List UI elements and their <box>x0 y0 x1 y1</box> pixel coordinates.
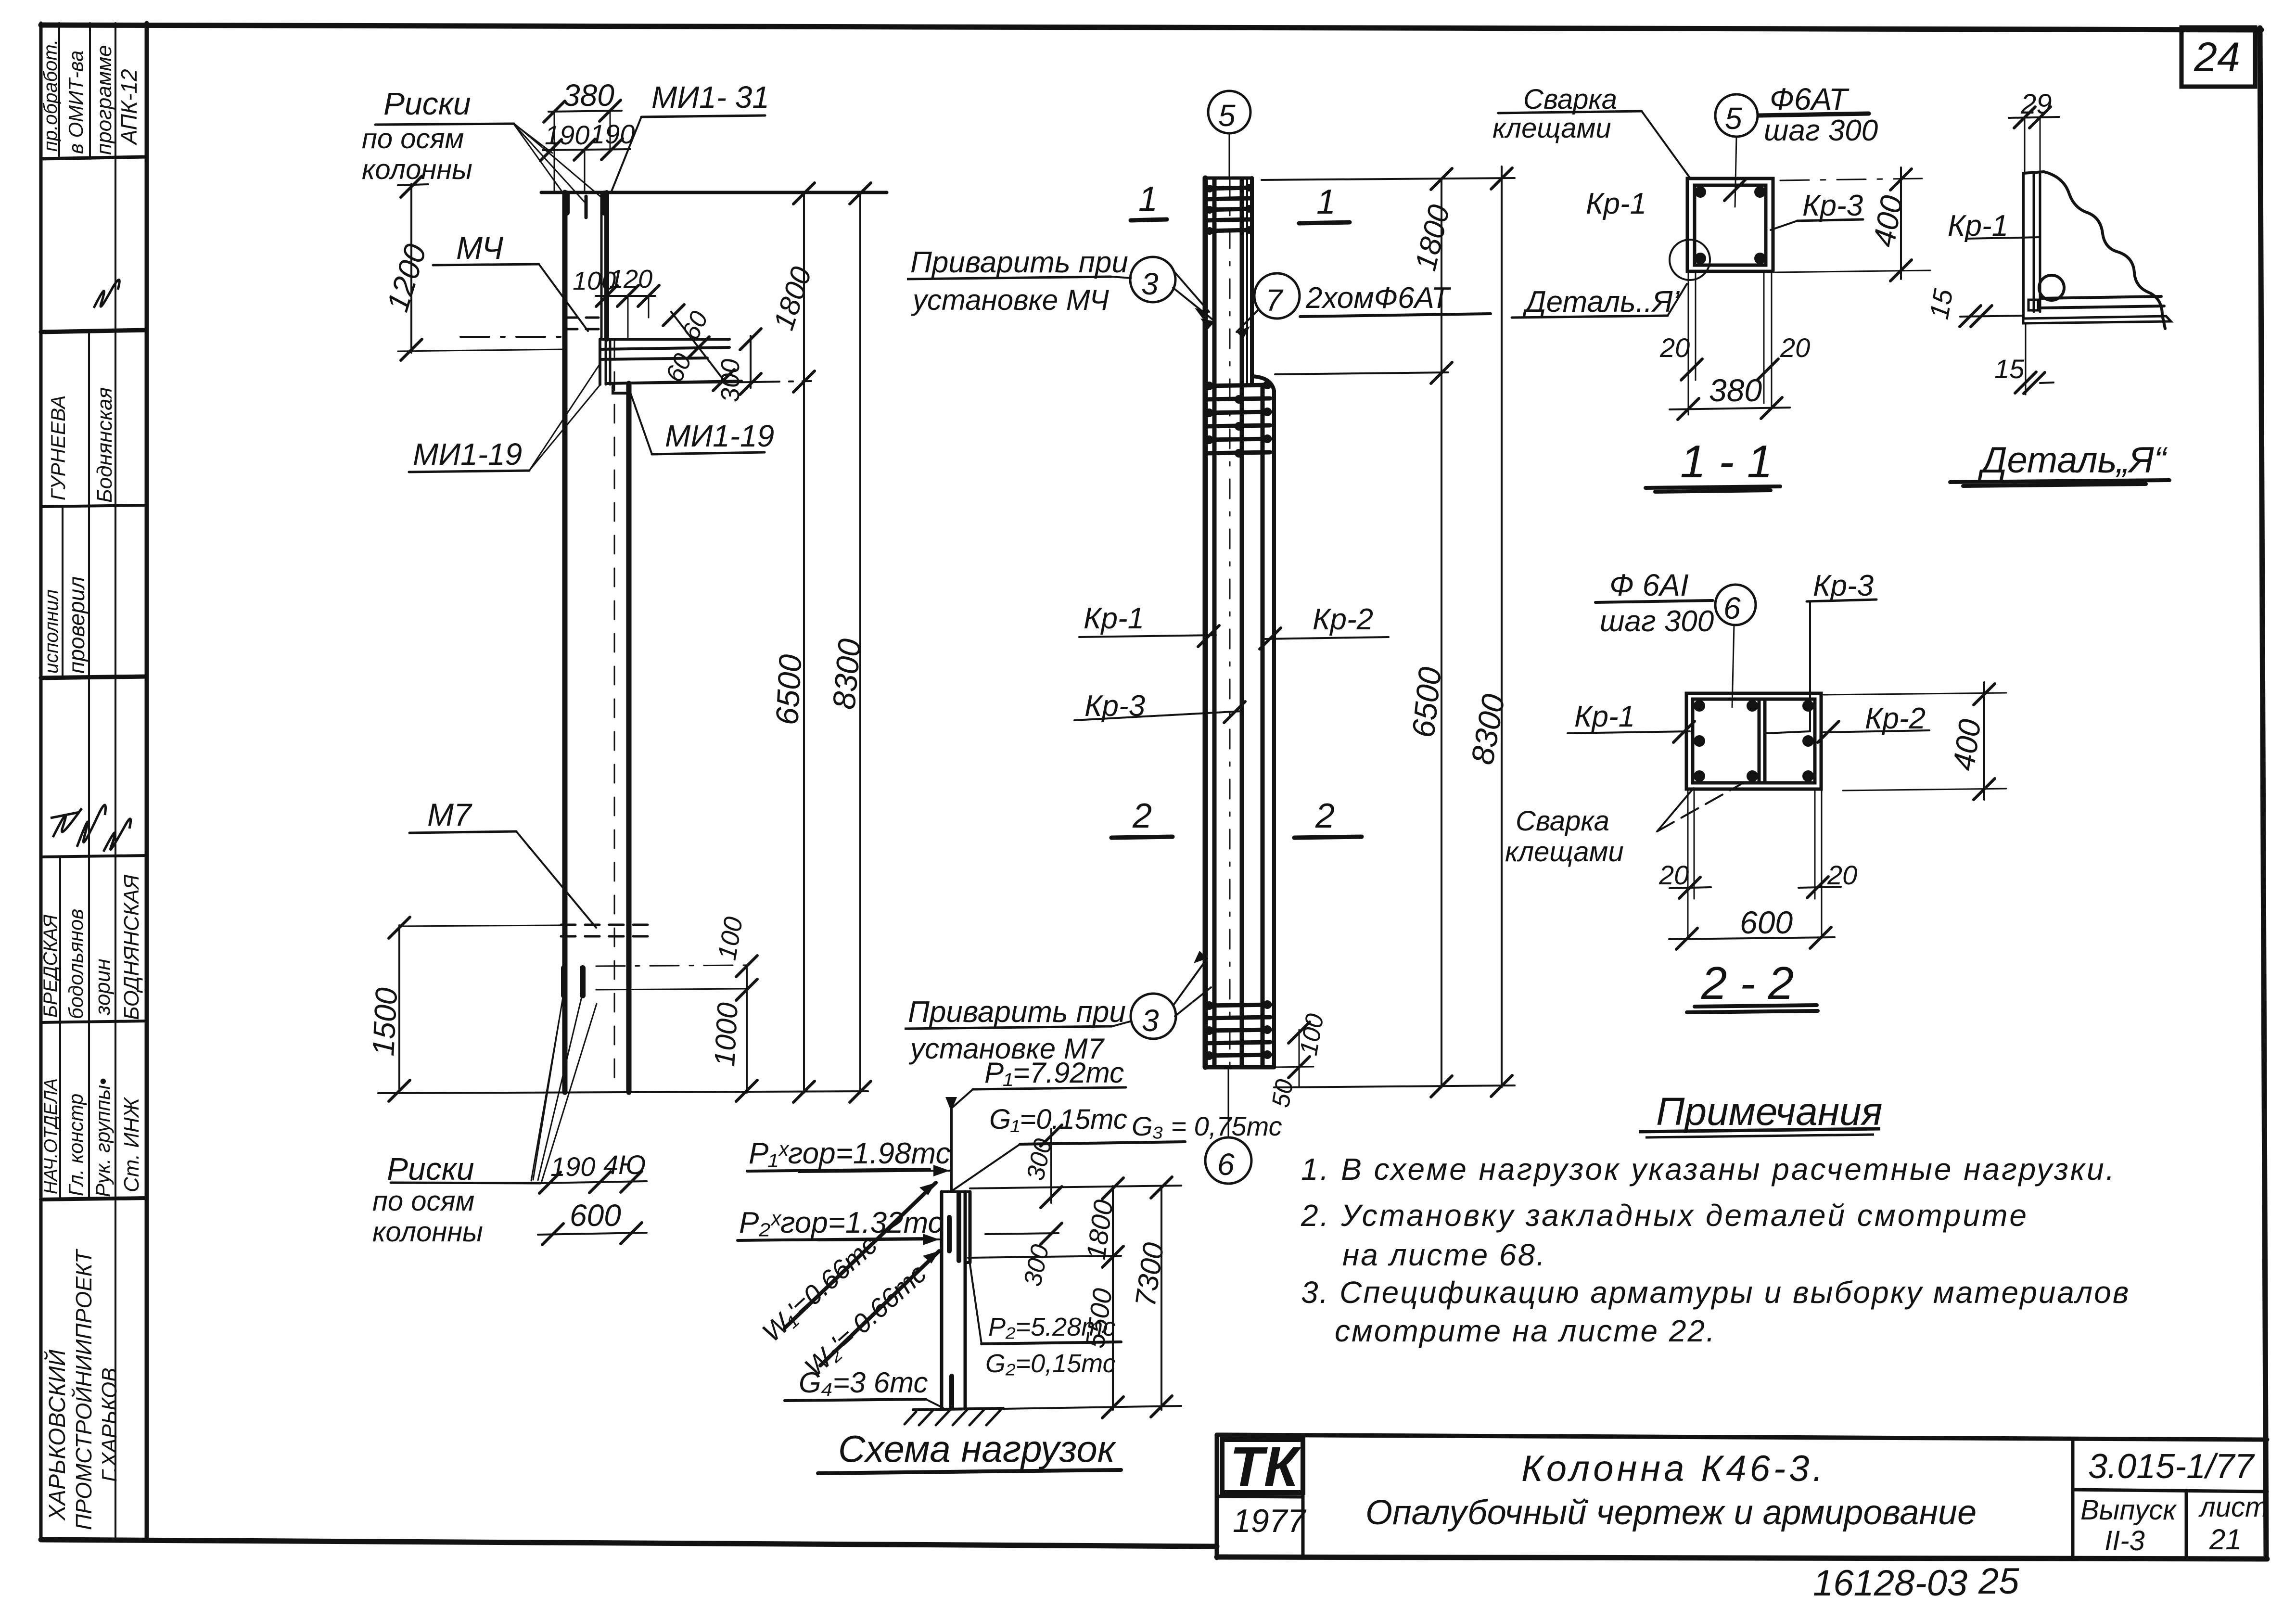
column outline armature view <box>1203 178 1208 1067</box>
G3 underline and leader <box>1020 1142 1185 1144</box>
rebar dots 2-2 <box>1694 700 1814 782</box>
top 380 dim <box>548 111 622 112</box>
svg-text:20: 20 <box>1780 332 1810 363</box>
column top line <box>541 191 887 194</box>
Деталь А leader <box>1512 316 1668 318</box>
svg-text:6500: 6500 <box>1405 665 1448 739</box>
detail A circle on 1-1 <box>1670 240 1710 280</box>
svg-text:МИ1- 31: МИ1- 31 <box>651 80 769 115</box>
risk marks lower column <box>561 968 567 995</box>
axis dashed line lower column <box>614 339 615 1090</box>
section 2-2 inner partition Кр-3 <box>1758 699 1761 783</box>
2-2 title underline <box>1687 1005 1818 1012</box>
detail A bottom plate <box>2041 296 2161 298</box>
svg-text:колонны: колонны <box>362 154 472 185</box>
W1 wind arrow diagonal <box>785 1183 936 1328</box>
МЧ embedded plate dashed <box>565 317 607 319</box>
svg-text:24: 24 <box>2194 34 2240 80</box>
svg-text:по осям: по осям <box>362 123 464 154</box>
svg-text:29: 29 <box>2020 89 2052 120</box>
Сварка клещами leader <box>1498 111 1642 113</box>
svg-text:120: 120 <box>609 265 652 294</box>
svg-text:6: 6 <box>1217 1147 1235 1182</box>
section mark 1 right <box>1299 222 1350 223</box>
stamp strip horizontal dividers <box>41 157 147 159</box>
circle 5 of section 1-1 <box>1715 94 1758 137</box>
svg-text:2: 2 <box>1315 797 1335 835</box>
connector lines load scheme <box>970 1186 1181 1188</box>
svg-text:7: 7 <box>1265 283 1284 318</box>
svg-text:1: 1 <box>1138 180 1158 218</box>
svg-text:G₃ = 0,75тс: G₃ = 0,75тс <box>1132 1111 1282 1141</box>
svg-text:50: 50 <box>1267 1077 1299 1110</box>
300 dim right of plate <box>750 336 752 388</box>
svg-text:Колонна К46-3.: Колонна К46-3. <box>1521 1448 1826 1489</box>
risk tick marks at column top <box>564 193 570 213</box>
mast of load scheme <box>940 1192 944 1409</box>
svg-text:1 - 1: 1 - 1 <box>1680 436 1773 487</box>
50/100 small dims <box>1274 1067 1314 1067</box>
svg-text:3: 3 <box>1142 1003 1159 1038</box>
svg-text:Ф 6АІ: Ф 6АІ <box>1609 568 1689 602</box>
dim line 1200 <box>410 184 412 353</box>
svg-text:МИ1-19: МИ1-19 <box>665 419 774 453</box>
svg-text:ТК: ТК <box>1230 1435 1301 1498</box>
texts of formwork view <box>362 78 867 1248</box>
Кр-1 leader 2-2 <box>1568 731 1690 733</box>
Кр-3 leader <box>1074 711 1242 720</box>
svg-text:БОДНЯНСКАЯ: БОДНЯНСКАЯ <box>120 874 143 1020</box>
svg-text:1: 1 <box>1316 183 1336 221</box>
section mark 2 right <box>1294 837 1362 838</box>
svg-text:на листе 68.: на листе 68. <box>1342 1238 1546 1272</box>
P1 arrow down <box>945 1097 957 1111</box>
G4 underline leader <box>785 1399 926 1401</box>
svg-text:Г.ХАРЬКОВ: Г.ХАРЬКОВ <box>98 1368 121 1482</box>
svg-text:Кр-3: Кр-3 <box>1813 569 1874 602</box>
svg-text:ПРОМСТРОЙНИИПРОЕКТ: ПРОМСТРОЙНИИПРОЕКТ <box>71 1249 96 1530</box>
Приварить underline bottom <box>905 1026 1112 1029</box>
svg-text:Кр-3: Кр-3 <box>1084 689 1145 723</box>
svg-text:400: 400 <box>1946 717 1988 773</box>
svg-text:Выпуск: Выпуск <box>2080 1494 2177 1526</box>
20/20 ext lines 2-2 <box>1687 789 1689 938</box>
svg-text:G₂=0,15тс: G₂=0,15тс <box>985 1349 1116 1378</box>
dim line 1500 <box>398 925 400 1093</box>
svg-text:Кр-1: Кр-1 <box>1084 602 1144 635</box>
svg-text:по осям: по осям <box>372 1186 474 1217</box>
page bottom border <box>41 1540 1217 1546</box>
rebar dots 1-1 <box>1695 186 1766 264</box>
svg-text:2 - 2: 2 - 2 <box>1701 957 1794 1009</box>
section 2-2 outer rect <box>1686 693 1821 789</box>
P1гор underline arrow <box>747 1169 930 1171</box>
svg-text:15: 15 <box>1924 286 1959 321</box>
svg-text:установке МЧ: установке МЧ <box>911 284 1109 316</box>
svg-text:16128-03: 16128-03 <box>1813 1563 1967 1604</box>
stamp strip signature squiggle row2 <box>94 280 119 308</box>
dim line 100/1000 right of risks <box>746 965 748 1093</box>
svg-text:2хомФ6АТ: 2хомФ6АТ <box>1305 281 1452 315</box>
console top extension <box>1275 372 1448 374</box>
svg-text:МЧ: МЧ <box>456 230 504 266</box>
svg-text:бодольянов: бодольянов <box>64 909 87 1019</box>
svg-text:НАЧ.ОТДЕЛА: НАЧ.ОТДЕЛА <box>41 1078 61 1194</box>
svg-text:6: 6 <box>1723 591 1741 625</box>
column right face upper (380 part) <box>600 192 603 339</box>
stamp strip rotated texts row1 <box>40 39 141 155</box>
МИ1-19 console plate <box>600 338 729 341</box>
svg-text:8300: 8300 <box>826 637 867 711</box>
380 dim of 1-1 <box>1670 408 1790 409</box>
dim verticals 1800-6500 / 8300 <box>1441 179 1442 1087</box>
position circle 5 top <box>1208 91 1250 133</box>
console bottom level line to dim <box>630 382 755 383</box>
Риски bottom leader underline <box>391 1183 541 1183</box>
МИ1-19 right leader <box>652 452 765 454</box>
svg-text:190: 190 <box>550 1151 595 1182</box>
Деталь А title underline <box>1950 480 2169 486</box>
top 190/190 dim <box>543 149 630 150</box>
svg-text:Р₁=7.92тс: Р₁=7.92тс <box>984 1057 1124 1089</box>
svg-text:Гл. констр: Гл. констр <box>64 1094 87 1196</box>
svg-text:Кр-2: Кр-2 <box>1313 603 1373 636</box>
riski fan top <box>514 124 567 198</box>
svg-text:шаг 300: шаг 300 <box>1764 114 1878 147</box>
texts section 1-1 <box>1492 82 1909 487</box>
Кр-3 leader 1-1 <box>1771 221 1797 230</box>
svg-text:проверил: проверил <box>64 576 89 674</box>
svg-text:5: 5 <box>1725 101 1742 136</box>
console notch <box>613 383 630 393</box>
svg-text:20: 20 <box>1659 332 1690 363</box>
W2 wind arrow diagonal <box>820 1251 939 1366</box>
svg-text:программе: программе <box>92 45 116 155</box>
svg-text:колонны: колонны <box>372 1216 483 1248</box>
section 1-1 outer rect <box>1687 179 1773 271</box>
console outer edge and lower right face <box>1252 376 1274 1067</box>
top stirrup zone <box>1207 188 1251 231</box>
svg-text:АПК-12: АПК-12 <box>116 69 141 146</box>
svg-text:Сварка: Сварка <box>1523 84 1617 115</box>
svg-text:1977: 1977 <box>1233 1503 1306 1539</box>
svg-text:клещами: клещами <box>1492 113 1611 144</box>
svg-text:в ОМИТ-ва: в ОМИТ-ва <box>64 51 87 154</box>
svg-text:Ст. ИНЖ: Ст. ИНЖ <box>120 1097 143 1192</box>
600 dim 2-2 <box>1669 937 1835 939</box>
Ф6АТ шаг300 label underline <box>1759 114 1869 115</box>
callout circle 3 top with leaders <box>1130 257 1175 302</box>
svg-text:клещами: клещами <box>1505 836 1624 868</box>
page top border <box>41 25 2261 30</box>
bottom 600 dim line <box>538 1233 647 1235</box>
mast axis upper <box>950 1107 953 1192</box>
stamp strip vertical dividers <box>58 23 60 159</box>
bottom extension <box>1274 1085 1515 1087</box>
svg-text:пр.обработ.: пр.обработ. <box>40 39 61 152</box>
Кр-2 leader 2-2 <box>1824 730 1929 732</box>
svg-text:21: 21 <box>2209 1523 2242 1556</box>
svg-text:Деталь„Я“: Деталь„Я“ <box>1977 440 2168 481</box>
mast corbel <box>969 1192 972 1263</box>
Схема нагрузок underline <box>818 1470 1121 1473</box>
svg-text:1500: 1500 <box>366 986 404 1057</box>
slanted 60/60 dim chain <box>671 312 726 383</box>
svg-text:Примечания: Примечания <box>1656 1090 1882 1134</box>
svg-text:МИ1-19: МИ1-19 <box>413 437 522 472</box>
svg-text:Опалубочный̇ чертеж и армиров: Опалубочный̇ чертеж и армирование <box>1365 1493 1977 1532</box>
svg-text:ГУРНЕЕВА: ГУРНЕЕВА <box>47 395 69 500</box>
svg-text:Схема нагрузок: Схема нагрузок <box>838 1428 1117 1470</box>
callout circle 3 bottom with leaders <box>1131 994 1176 1039</box>
svg-text:2: 2 <box>1132 797 1152 835</box>
svg-text:зорин: зорин <box>91 958 115 1016</box>
Кр-1 leader <box>1079 635 1216 637</box>
svg-text:Рук. группы•: Рук. группы• <box>91 1078 114 1197</box>
svg-text:ІІ-3: ІІ-3 <box>2105 1525 2145 1557</box>
svg-text:1000: 1000 <box>708 1002 744 1068</box>
svg-text:Риски: Риски <box>383 86 471 121</box>
column right face lower (600 part) <box>626 383 632 1092</box>
stamp strip row5 signatures <box>51 808 82 837</box>
callout circle 7 with leader <box>1254 273 1300 319</box>
МИ1-19 left leader <box>409 471 529 472</box>
svg-text:3. Спецификацию арматуры и в: 3. Спецификацию арматуры и выборку матер… <box>1301 1275 2130 1310</box>
20/20 ext lines of 1-1 <box>1688 271 1689 415</box>
svg-text:300: 300 <box>716 359 745 402</box>
svg-text:Ф6АТ: Ф6АТ <box>1770 82 1850 116</box>
1-1 title underline <box>1645 486 1780 492</box>
svg-text:шаг 300: шаг 300 <box>1600 605 1714 638</box>
small anchor square <box>2028 300 2038 310</box>
detail A plate verticals <box>2022 173 2025 318</box>
column left face <box>562 192 568 1092</box>
15 upper dim detail A <box>1960 316 2023 317</box>
МЧ leader <box>433 264 539 265</box>
svg-text:190: 190 <box>590 119 635 149</box>
risk fan lines bottom <box>533 997 563 1180</box>
svg-text:Кр-1: Кр-1 <box>1948 209 2008 242</box>
sheet number box 24 <box>2181 27 2255 87</box>
svg-text:600: 600 <box>1740 905 1793 940</box>
section 2-2 stirrup rect <box>1693 699 1815 783</box>
2хомФ6АТ underline <box>1300 314 1491 317</box>
svg-text:ХАРЬКОВСКИЙ: ХАРЬКОВСКИЙ <box>44 1349 70 1521</box>
svg-text:Боднянская: Боднянская <box>93 387 116 503</box>
title block outer <box>1217 1435 2267 1440</box>
svg-text:1. В схеме нагрузок указаны р: 1. В схеме нагрузок указаны расчетные на… <box>1301 1152 2116 1187</box>
top extension line <box>1262 178 1515 180</box>
svg-text:15: 15 <box>1994 354 2025 384</box>
svg-text:Кр-2: Кр-2 <box>1865 702 1926 735</box>
ТК logo box <box>1222 1440 1303 1493</box>
P1 label leader <box>973 1087 1126 1089</box>
Примечания underline <box>1639 1129 1880 1132</box>
section mark 1 left <box>1131 219 1167 220</box>
svg-text:20: 20 <box>1827 860 1857 890</box>
Приварить underline top <box>907 277 1111 279</box>
weld circle detail A <box>2039 275 2064 300</box>
section 1-1 stirrup inner rect <box>1695 185 1766 265</box>
axis dashed <box>1229 179 1231 1066</box>
section mark 2 left <box>1111 837 1173 838</box>
svg-text:смотрите на листе 22.: смотрите на листе 22. <box>1335 1314 1716 1348</box>
svg-text:Приварить при: Приварить при <box>908 995 1126 1029</box>
М7 leader <box>409 831 516 833</box>
15 lower dim detail A <box>2025 323 2027 395</box>
circle 6 of section 2-2 <box>1715 585 1756 625</box>
svg-text:25: 25 <box>1978 1561 2019 1602</box>
bottom stirrup zone <box>1206 1005 1270 1056</box>
svg-text:исполнил: исполнил <box>41 589 62 674</box>
400 dim of 1-1 <box>1900 167 1902 279</box>
svg-text:5: 5 <box>1218 98 1236 133</box>
svg-text:лист: лист <box>2198 1492 2268 1523</box>
Риски top leader underline <box>375 124 514 125</box>
svg-text:Деталь..Я’: Деталь..Я’ <box>1522 285 1680 319</box>
svg-text:Сварка: Сварка <box>1516 805 1609 837</box>
bottom dimension line <box>378 1091 868 1093</box>
svg-text:Кр-1: Кр-1 <box>1574 700 1635 733</box>
svg-text:Приварить при: Приварить при <box>910 246 1128 279</box>
svg-text:Р₂ˣгор=1.32тс: Р₂ˣгор=1.32тс <box>739 1206 943 1239</box>
position circle 6 bottom <box>1205 1137 1251 1184</box>
title block right part dividers <box>2071 1439 2075 1559</box>
svg-text:4Ю: 4Ю <box>603 1149 646 1180</box>
svg-text:3.015-1/77: 3.015-1/77 <box>2088 1447 2255 1486</box>
Сварка клещами leaders 2-2 <box>1657 788 1694 831</box>
svg-text:600: 600 <box>570 1198 621 1233</box>
Кр-1 leader detail A <box>1966 237 2040 239</box>
concrete break line detail A <box>2044 172 2165 329</box>
ground line and hatch <box>913 1408 1003 1410</box>
svg-text:380: 380 <box>563 78 614 113</box>
Ф6АІ шаг300 underline 2-2 <box>1595 600 1713 602</box>
svg-text:БРЕДСКАЯ: БРЕДСКАЯ <box>40 914 61 1018</box>
svg-text:Кр-3: Кр-3 <box>1802 189 1863 222</box>
svg-text:М7: М7 <box>427 797 472 832</box>
400 dim 2-2 <box>1983 682 1985 800</box>
svg-text:G₄=3 6тс: G₄=3 6тс <box>799 1366 928 1399</box>
longitudinal bars <box>1212 179 1217 1066</box>
svg-text:20: 20 <box>1658 860 1689 890</box>
Кр-3 leader 2-2 <box>1807 600 1876 601</box>
texts reinforcement view <box>908 98 1511 1182</box>
svg-text:3: 3 <box>1141 267 1159 301</box>
console stirrup zone <box>1206 385 1270 453</box>
svg-text:380: 380 <box>1709 372 1762 408</box>
P2гор underline arrow <box>738 1238 930 1240</box>
29 dim detail A <box>2009 117 2059 118</box>
100/120 dim at plate top <box>596 295 655 297</box>
МИ1-31 leader <box>611 117 641 192</box>
left stamp strip outer <box>39 23 43 1537</box>
svg-text:2. Установку закладных детал: 2. Установку закладных деталей смотрите <box>1301 1198 2028 1233</box>
P2/G2 underline leader <box>982 1342 1121 1344</box>
bottom cap <box>1205 1065 1274 1070</box>
М7 plate dashed lines <box>561 924 652 926</box>
Кр-2 leader <box>1265 637 1389 639</box>
page right border <box>2260 28 2266 1559</box>
dim verticals 6500 and 8300 left view <box>803 192 805 1093</box>
svg-text:190: 190 <box>545 120 589 150</box>
svg-text:6500: 6500 <box>769 653 808 726</box>
svg-text:Р₁ˣгор=1.98тс: Р₁ˣгор=1.98тс <box>749 1137 950 1170</box>
svg-text:G₁=0.15тс: G₁=0.15тс <box>989 1104 1127 1135</box>
svg-text:Риски: Риски <box>387 1151 474 1187</box>
svg-text:Кр-1: Кр-1 <box>1586 187 1646 220</box>
bottom 190/410 dim line <box>541 1181 647 1183</box>
dim chain right of mast <box>1050 1129 1052 1203</box>
